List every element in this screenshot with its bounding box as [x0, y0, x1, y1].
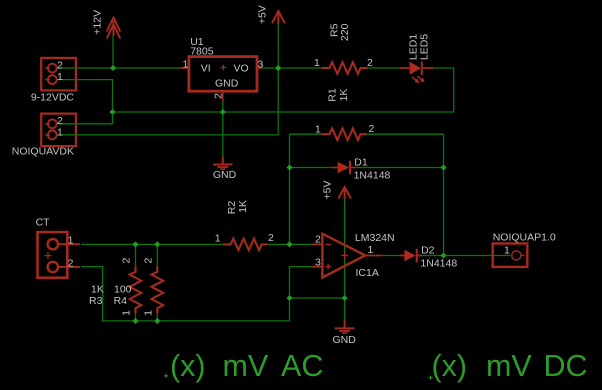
- svg-text:2: 2: [68, 258, 74, 270]
- svg-text:1: 1: [121, 310, 133, 316]
- svg-text:1K: 1K: [237, 200, 249, 213]
- svg-text:VI: VI: [201, 62, 211, 74]
- wire R4 top lead: [156, 244, 158, 266]
- svg-text:2: 2: [268, 232, 274, 244]
- ground symbol GND at U1: [213, 156, 237, 181]
- wire feedback right vertical: [443, 134, 445, 255]
- svg-text:1: 1: [57, 126, 63, 138]
- wire R3 top lead: [135, 244, 137, 266]
- resistor R4 100: [114, 258, 164, 316]
- svg-text:7805: 7805: [190, 46, 214, 58]
- connector NOIQUAP1.0: [493, 231, 556, 267]
- wire op-amp pin3 to bottom rail: [290, 267, 312, 321]
- resistor R1 1K: [315, 88, 375, 140]
- svg-text:2: 2: [315, 234, 321, 246]
- LED LED1: [400, 34, 433, 83]
- supply symbol +12V: [92, 10, 121, 39]
- svg-text:1: 1: [183, 58, 189, 70]
- text label (x) mV DC: [429, 349, 588, 383]
- node junction op-amp gnd: [342, 295, 348, 301]
- wire D1 left: [290, 167, 333, 169]
- wire +12V stem: [112, 36, 114, 69]
- connector J2 NOIQUAVDK: [12, 114, 77, 158]
- svg-text:100: 100: [114, 284, 132, 296]
- wire U1 GND pin drop to ground: [222, 102, 224, 157]
- wire +5V to connector J2 pin1: [77, 68, 278, 135]
- svg-text:+5V: +5V: [322, 181, 334, 200]
- supply symbol +5V at op-amp: [322, 181, 351, 200]
- wire U1 VO to R5: [263, 67, 322, 69]
- svg-text:1: 1: [368, 244, 374, 256]
- svg-text:D2: D2: [421, 245, 435, 257]
- node junction GND left: [109, 109, 115, 115]
- svg-text:1N4148: 1N4148: [420, 258, 457, 270]
- wire feedback left vertical: [289, 134, 291, 244]
- svg-text:1: 1: [314, 57, 320, 69]
- wire R2 to op-amp pin2: [268, 243, 312, 245]
- svg-text:D1: D1: [354, 157, 368, 169]
- wire R4 bottom lead: [156, 313, 158, 321]
- svg-text:DC: DC: [544, 349, 588, 383]
- svg-text:1: 1: [504, 245, 510, 257]
- svg-text:GND: GND: [213, 169, 237, 181]
- wire op-amp +5V supply vertical: [344, 199, 346, 298]
- node junction R3 top: [132, 241, 138, 247]
- node junction R3 bottom: [132, 318, 138, 324]
- ground symbol GND at op-amp: [333, 320, 357, 346]
- svg-text:R2: R2: [226, 201, 238, 215]
- connector CT: [36, 216, 80, 277]
- node junction +12V: [110, 65, 116, 71]
- svg-text:1: 1: [215, 233, 221, 245]
- svg-text:mV: mV: [223, 349, 269, 383]
- wire J2 pin2 to GND: [77, 112, 113, 124]
- svg-text:AC: AC: [281, 349, 323, 383]
- svg-text:2: 2: [121, 258, 133, 264]
- svg-text:+5V: +5V: [257, 5, 269, 24]
- wire R1 right: [366, 133, 443, 135]
- svg-text:NOIQUAP1.0: NOIQUAP1.0: [493, 231, 556, 243]
- svg-text:LM324N: LM324N: [355, 232, 395, 244]
- node junction GND at U1: [220, 109, 226, 115]
- svg-text:1K: 1K: [91, 284, 104, 296]
- connector J1 9-12VDC: [31, 58, 77, 104]
- svg-text:GND: GND: [215, 78, 239, 90]
- node junction output: [440, 252, 446, 258]
- text label (x) mV AC: [164, 349, 323, 383]
- svg-text:220: 220: [339, 23, 351, 41]
- svg-text:(x): (x): [170, 349, 206, 383]
- regulator U1 7805: [179, 36, 263, 102]
- svg-text:2: 2: [367, 57, 373, 69]
- op-amp IC1A LM324N: [312, 232, 395, 279]
- svg-text:GND: GND: [333, 334, 357, 346]
- svg-text:1N4148: 1N4148: [354, 170, 391, 182]
- wire D1 right: [356, 167, 443, 169]
- svg-text:CT: CT: [36, 216, 51, 228]
- supply symbol +5V top: [257, 5, 285, 24]
- wire +12V net y=68 from connector J1 pin2 to U1 VI: [77, 67, 180, 69]
- wire op-amp ground drop: [344, 298, 346, 320]
- svg-text:IC1A: IC1A: [356, 267, 379, 279]
- svg-text:1: 1: [57, 71, 63, 83]
- wire ground link: [290, 297, 345, 299]
- wire R1 left: [290, 133, 322, 135]
- diode D2 1N4148: [399, 245, 457, 270]
- svg-text:2: 2: [57, 59, 63, 71]
- diode D1 1N4148: [333, 157, 391, 182]
- svg-text:2: 2: [143, 258, 155, 264]
- svg-text:9-12VDC: 9-12VDC: [31, 91, 75, 103]
- wire LED cathode to GND rail: [113, 68, 454, 112]
- node junction D1 left: [286, 164, 292, 170]
- node junction D1 right: [440, 164, 446, 170]
- svg-text:1K: 1K: [338, 89, 350, 102]
- svg-text:1: 1: [315, 124, 321, 136]
- node junction pin3 gnd: [286, 295, 292, 301]
- wire J1 pin1 to GND: [77, 80, 113, 112]
- node junction +5V at U1 VO: [275, 65, 281, 71]
- node junction R4 top: [154, 241, 160, 247]
- svg-text:1: 1: [68, 235, 74, 247]
- svg-text:1: 1: [143, 310, 155, 316]
- svg-text:LED5: LED5: [418, 34, 430, 60]
- wire CT pin2 to bottom rail: [81, 267, 290, 321]
- svg-text:R4: R4: [114, 295, 128, 307]
- svg-text:mV: mV: [486, 349, 532, 383]
- node junction R4 bottom: [154, 318, 160, 324]
- svg-text:VO: VO: [234, 62, 249, 74]
- svg-text:3: 3: [315, 256, 321, 268]
- svg-text:2: 2: [369, 123, 375, 135]
- wire R3 bottom lead: [135, 313, 137, 321]
- svg-text:(x): (x): [432, 349, 468, 383]
- wire R5 to LED: [368, 67, 400, 69]
- svg-text:+12V: +12V: [92, 10, 104, 35]
- svg-text:3: 3: [258, 58, 264, 70]
- resistor R5 220: [314, 23, 373, 73]
- wire op-amp output to D2: [381, 255, 399, 257]
- svg-text:2: 2: [212, 93, 224, 99]
- svg-text:R3: R3: [89, 295, 103, 307]
- wire D2 to output connector: [422, 255, 511, 257]
- svg-text:R1: R1: [327, 88, 339, 102]
- wire +5V stem top: [277, 24, 279, 68]
- svg-text:NOIQUAVDK: NOIQUAVDK: [12, 145, 74, 157]
- resistor R3 1K: [89, 258, 141, 316]
- node junction inverting input: [286, 241, 292, 247]
- resistor R2 1K: [215, 200, 274, 250]
- wire CT pin1 rail to R2: [81, 243, 223, 245]
